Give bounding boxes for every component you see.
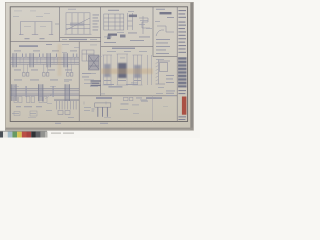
deck box a — [58, 111, 63, 115]
mush an — [64, 80, 69, 83]
beam1 stiffener ticks — [20, 58, 75, 64]
elev3 section caps — [103, 54, 113, 56]
elev1 tick a — [22, 54, 23, 58]
frame mush — [70, 23, 84, 26]
frame post 3 — [77, 13, 79, 34]
strip dense row 5 — [178, 72, 186, 74]
corner box — [160, 63, 168, 72]
extra leader line — [45, 94, 52, 99]
elev1 column 1 — [12, 53, 16, 67]
base plate 3a — [39, 97, 42, 103]
leader arc — [156, 30, 164, 36]
strip row 12 — [178, 116, 186, 117]
mush y — [12, 112, 19, 115]
elev1 bottom chord line a — [10, 61, 79, 63]
corner base — [156, 83, 166, 85]
extra tick row a — [83, 102, 85, 105]
elev2 beam wash — [10, 88, 79, 95]
mush ay — [133, 112, 139, 115]
section box web 1 — [108, 14, 110, 30]
mush at — [90, 44, 97, 47]
elev1 bottom chord line b — [10, 63, 79, 65]
hatch t4 — [156, 73, 159, 75]
mush v — [132, 104, 139, 107]
mush as — [74, 46, 80, 49]
heavy mark 2 — [120, 35, 126, 38]
fr text b — [167, 16, 174, 19]
panel F dark note blob — [91, 80, 101, 86]
fr text d — [156, 42, 168, 45]
mush aq — [44, 12, 50, 15]
anchor bolt 3 — [106, 107, 108, 117]
mush ax — [47, 102, 52, 105]
anchor base plate — [95, 103, 111, 107]
panel divider H4 — [101, 46, 153, 48]
elev2 tick a — [26, 86, 27, 97]
column tie a — [128, 15, 133, 17]
deck line b — [54, 100, 79, 102]
stud 6 — [70, 101, 72, 110]
mush l — [124, 50, 131, 53]
stud 2 — [58, 101, 60, 110]
frame post 2 — [71, 13, 73, 34]
caption text a — [51, 133, 61, 134]
corner text b — [166, 78, 173, 81]
pair detail 1a — [23, 73, 26, 77]
frame post 4 — [83, 13, 85, 34]
strip row 6b — [178, 38, 186, 39]
elev1 tick d — [43, 54, 44, 58]
elev1 top chord line a — [10, 56, 79, 58]
patch shadow line — [0, 131, 47, 132]
strip row 3 — [178, 17, 186, 18]
elev1 small text a — [46, 43, 52, 46]
elev3 section 2 lines — [117, 54, 119, 85]
mush ai — [155, 20, 160, 23]
patch black — [31, 132, 36, 138]
dimension tick — [55, 23, 59, 25]
corner wall line — [158, 60, 160, 85]
elev2 bottom chord b — [10, 95, 79, 97]
mush f — [146, 27, 152, 30]
elev3 text b — [118, 79, 126, 82]
notes text r6 — [93, 29, 99, 32]
red stamp — [182, 97, 187, 115]
patch green — [12, 132, 17, 138]
sheet bottom edge shadow — [6, 128, 193, 130]
deck plan top chord — [20, 21, 52, 23]
hatch t5 — [156, 76, 159, 78]
extra tick row b — [105, 102, 107, 105]
deck box b — [65, 111, 70, 115]
mush n — [156, 58, 164, 61]
frame diagonal — [66, 18, 90, 30]
dim text 1 — [25, 38, 30, 39]
elev1 column 3 — [46, 53, 50, 67]
strip dense row 4 — [178, 68, 186, 70]
pair detail 2b — [46, 73, 49, 77]
small detail group lower-left quadrant extra — [14, 94, 106, 116]
sheet right edge shadow — [190, 3, 193, 130]
elev1 note b — [33, 50, 40, 53]
patch gray — [41, 132, 46, 138]
mush ak — [158, 86, 164, 89]
mush x — [156, 92, 163, 95]
caption text b — [63, 133, 74, 134]
elev3 section 1 lines — [103, 55, 105, 85]
drawing sheet — [6, 3, 192, 129]
panel divider V5 — [152, 7, 154, 57]
lr label 2 — [146, 97, 162, 99]
elev1 tick b — [26, 54, 27, 58]
strip row 5 — [178, 28, 185, 29]
right detail profile — [139, 18, 150, 28]
pair detail 3b — [70, 73, 73, 77]
panel F text a — [82, 72, 91, 75]
elev2 top chord b — [10, 89, 79, 91]
elev2 dim c — [36, 105, 42, 108]
elev1 tick g — [76, 54, 77, 58]
elev1 beam wash — [10, 57, 79, 64]
fr text e — [156, 45, 170, 48]
tan stain vertical — [58, 44, 62, 76]
section box tie 1 — [104, 17, 124, 19]
mush c — [84, 82, 92, 85]
elev3 text d — [104, 83, 114, 86]
anchor bolt 1 — [97, 107, 99, 117]
mush z — [30, 112, 36, 115]
page background — [0, 0, 200, 138]
mush az — [156, 97, 162, 100]
section title under H4 — [112, 48, 135, 49]
panel F text b — [82, 76, 89, 79]
strip row 7b — [178, 45, 186, 46]
mush e — [139, 23, 145, 26]
notes text r5 — [93, 26, 99, 29]
anchor bolt 2 — [102, 107, 104, 117]
panel divider V2 — [59, 7, 61, 42]
patch yellow — [17, 132, 22, 138]
mush t — [84, 109, 90, 112]
stud 3 — [61, 101, 63, 110]
eave profile — [157, 26, 174, 32]
mush au — [62, 51, 67, 54]
elev2 column 1 — [11, 84, 16, 101]
frame top chord — [66, 12, 90, 14]
strip dense row 2 — [178, 61, 186, 63]
pair detail 3a — [67, 73, 70, 77]
stud 8 — [75, 101, 77, 110]
notes text r2 — [93, 17, 99, 20]
elev1 note a — [14, 50, 21, 53]
mush s — [84, 106, 91, 109]
elev3 section 4 lines — [147, 55, 149, 85]
fr text c — [156, 38, 170, 41]
hatch t1 — [156, 62, 159, 64]
mush q — [108, 86, 122, 88]
mush b — [84, 79, 94, 82]
patch dark slate — [0, 132, 3, 138]
deck line a — [54, 98, 79, 100]
deck plan mid web — [34, 22, 36, 35]
elev1 column 2 — [29, 53, 33, 67]
elev3 section 3 lines — [133, 55, 135, 85]
elev1 title — [19, 45, 38, 47]
mush ap — [30, 10, 36, 13]
beam1 drop hangers — [24, 64, 72, 72]
strip row 4b — [178, 25, 186, 26]
elev2 tick b — [53, 86, 54, 97]
lr text d — [136, 97, 142, 100]
stud 1 — [56, 101, 58, 110]
dim text 2 — [40, 38, 45, 39]
elev1 top chord line b — [10, 58, 79, 60]
mush ar — [62, 43, 69, 46]
midband text a — [14, 79, 22, 82]
sheet shadow — [5, 2, 194, 131]
deck plan left web — [19, 22, 21, 35]
pair detail 2a — [43, 73, 46, 77]
elev1 column 4 — [63, 53, 67, 67]
mush ab — [46, 109, 52, 112]
tr text c — [139, 36, 150, 39]
tr text b — [128, 32, 137, 35]
notes text r4 — [93, 23, 98, 26]
column tie b — [128, 20, 133, 22]
mush k — [107, 50, 116, 53]
elev3 dark core — [118, 63, 127, 78]
panel F bearing detail — [82, 50, 94, 61]
elev1 dim text c — [48, 69, 55, 72]
mush ao — [14, 10, 22, 13]
base plate 1b — [19, 97, 22, 103]
bottom note b — [100, 122, 108, 125]
patch cyan — [8, 132, 13, 138]
strip dense row 1 — [178, 58, 186, 60]
mush a — [88, 72, 96, 75]
mush i — [62, 38, 67, 41]
lr notes block r1 — [166, 90, 175, 93]
elev1 tick f — [73, 54, 74, 58]
mush j — [90, 38, 97, 41]
mush ae — [40, 25, 46, 28]
mush ba — [163, 105, 168, 108]
elev3 blob 3 — [134, 65, 141, 78]
deck plan foot right — [49, 34, 53, 36]
corner top line — [159, 60, 171, 62]
mush aj — [128, 10, 134, 13]
lr small box a — [124, 97, 129, 100]
mush ac — [68, 116, 74, 119]
stud 7 — [72, 101, 74, 110]
elev2 bottom chord a — [10, 93, 79, 95]
tr text e — [104, 41, 116, 44]
lr notes block r2 — [166, 92, 174, 95]
mush ag — [36, 15, 43, 18]
base plate 2a — [27, 97, 30, 103]
elev2 dim b — [24, 105, 32, 108]
section box web 2 — [114, 14, 116, 30]
lr notes block r3 — [166, 94, 175, 97]
corner text a — [166, 74, 174, 77]
elev2 column 2 — [38, 84, 43, 101]
patch light gray — [45, 132, 47, 138]
elev2 column 3 — [65, 84, 70, 101]
panel title strip — [69, 39, 87, 40]
elev1 dim text a — [14, 69, 21, 72]
elev2 top chord a — [10, 87, 79, 89]
strip dense row 7 — [178, 79, 186, 81]
strip row 8 — [178, 48, 185, 49]
corner text c — [166, 81, 174, 84]
fr text f — [156, 49, 166, 52]
column section right flange — [132, 13, 134, 30]
section box tie 2 — [104, 21, 124, 23]
frame mid tie — [66, 23, 90, 25]
mush bb — [98, 55, 102, 58]
lr text a — [92, 108, 95, 111]
mush p — [90, 85, 98, 88]
fr text a — [156, 8, 165, 11]
elev1 tick e — [56, 54, 57, 58]
column tie c — [128, 25, 133, 27]
panel divider H5 — [153, 56, 177, 58]
patch red 1 — [22, 132, 27, 138]
notes text r1 — [93, 14, 100, 17]
stud 5 — [67, 101, 69, 110]
mush r — [131, 82, 138, 85]
hatch t2 — [156, 66, 159, 68]
lr label 1 — [96, 97, 112, 99]
patch white — [3, 132, 8, 138]
elev2 dim a — [16, 105, 21, 108]
elev1 note d — [70, 50, 77, 53]
panel divider H2 — [60, 37, 101, 39]
frame right post — [89, 13, 91, 34]
section box web 3 — [119, 14, 121, 30]
strip row 2 — [178, 13, 185, 14]
frame left post — [65, 13, 67, 34]
base plate 1a — [14, 97, 17, 103]
panel divider V4 — [78, 42, 80, 122]
extra detail box b — [14, 112, 20, 116]
strip row 11 — [178, 93, 185, 94]
tr text d — [130, 39, 144, 42]
mush d — [140, 19, 148, 22]
patch dark gray — [36, 132, 41, 138]
strip row 9 — [178, 52, 186, 53]
midband text c — [50, 79, 58, 82]
strip dense row 3 — [178, 65, 186, 67]
faint divider x152 — [152, 96, 154, 122]
panel divider H3 — [10, 41, 101, 43]
lr small box b — [130, 97, 133, 100]
mush aw — [28, 116, 36, 119]
strip row 6 — [178, 35, 185, 36]
hatch t6 — [156, 80, 159, 82]
midband text d — [64, 79, 72, 82]
strip row 5b — [178, 31, 186, 32]
panel divider V3 — [100, 7, 102, 96]
mush am — [50, 85, 56, 88]
mush al — [100, 93, 105, 96]
strip dense row 9 — [178, 86, 186, 88]
patch red 2 — [27, 132, 32, 138]
fr text g — [156, 52, 169, 55]
deck plan right web — [51, 22, 53, 35]
mush ah — [68, 8, 76, 11]
strip dense row 8 — [178, 82, 186, 84]
section box tie 3 — [104, 25, 124, 27]
elev3 blob 1 — [104, 64, 111, 77]
mush ad — [24, 25, 31, 28]
heavy bar — [160, 12, 172, 14]
stud 4 — [64, 101, 66, 110]
panel divider H6 — [79, 95, 177, 97]
deck plan foot mid — [32, 34, 38, 36]
lr text c — [121, 103, 129, 106]
dark mark top — [129, 15, 137, 18]
mush w — [140, 99, 147, 102]
strip row 1 — [178, 10, 186, 11]
strip row 7 — [178, 42, 185, 43]
section box frame — [104, 14, 124, 30]
elev3 text c — [134, 79, 141, 82]
lr text e — [141, 100, 148, 103]
mush g — [117, 31, 124, 34]
midband text b — [30, 79, 39, 82]
mush u — [120, 108, 128, 111]
elev3 text e — [126, 83, 138, 86]
elev1 note c — [52, 50, 59, 53]
mush af — [13, 15, 19, 18]
bottom note a — [55, 122, 61, 125]
notes text r3 — [93, 20, 100, 23]
hatch t3 — [156, 69, 159, 71]
elev1 dim text b — [31, 69, 38, 72]
elev3 text a — [104, 79, 111, 82]
border frame — [10, 7, 187, 122]
frame bottom chord — [65, 33, 92, 35]
elev1 tick c — [39, 54, 40, 58]
mush av — [104, 116, 111, 119]
deck plan foot left — [19, 34, 24, 36]
strip dense row 6 — [178, 75, 186, 77]
strip row 13 — [178, 119, 185, 120]
panel divider V6 title strip — [176, 7, 178, 122]
mush m — [139, 50, 147, 53]
tr text a — [108, 10, 119, 11]
frame lower tie — [66, 28, 90, 30]
base plate 3b — [44, 97, 47, 103]
pair detail 1b — [26, 73, 29, 77]
base plate 2b — [31, 97, 34, 103]
extra detail box a — [30, 111, 37, 116]
strip row 4 — [178, 22, 185, 23]
mush aa — [14, 85, 19, 88]
lr text b — [92, 110, 95, 113]
column section left flange — [127, 13, 129, 30]
tan stain streak — [101, 69, 153, 75]
right detail vertical — [142, 16, 144, 34]
heavy bent plate — [107, 34, 117, 40]
hatched block — [89, 55, 100, 70]
mush o — [120, 57, 125, 60]
elev1 dim text d — [65, 69, 72, 72]
strip row 10 — [178, 90, 186, 91]
mush h — [104, 36, 112, 39]
